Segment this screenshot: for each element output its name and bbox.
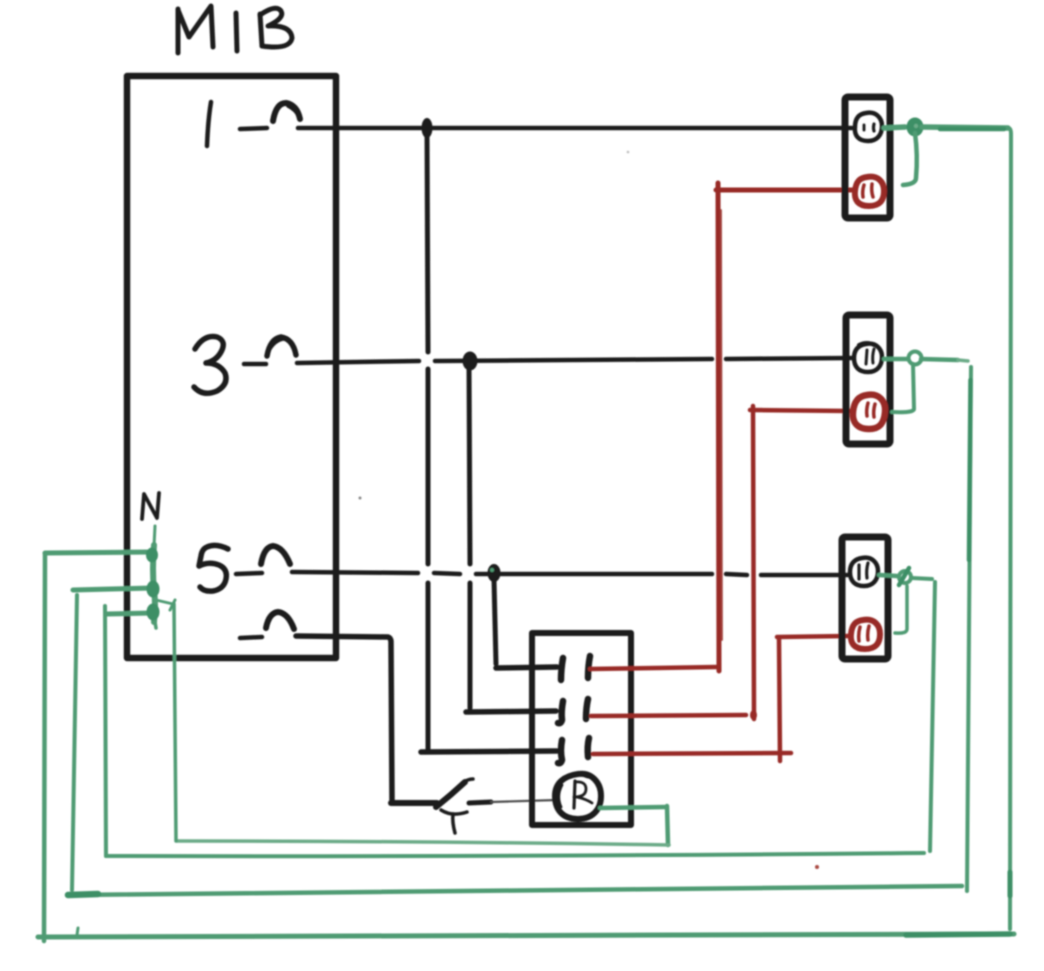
node junction on L3: [463, 352, 478, 371]
wire L1 from terminal 1 to outlet 1: [298, 126, 852, 131]
outlet 2 hot contact: [854, 343, 882, 372]
outlet 3 box: [842, 537, 888, 659]
neutral wire outlet2 bottom run: [68, 886, 962, 895]
terminal 3 of MIB (label, dash, breaker arc): [194, 337, 296, 394]
neutral wire relay coil bottom run: [177, 841, 669, 845]
neutral wire outlet2 run right: [921, 359, 968, 361]
outlet 1 hot contact: [855, 113, 882, 141]
label N: [142, 493, 159, 519]
terminal aux of MIB (dash, breaker arc): [240, 612, 294, 638]
stray ink speck gray: [359, 151, 630, 500]
neutral wire outlet3 left riser: [105, 606, 106, 856]
neutral wire outlet1 bottom run: [38, 928, 1014, 937]
node junction on L5: [488, 564, 501, 582]
neutral stub outlet3 into N: [107, 613, 152, 614]
outlet 2 switched contact: [853, 395, 885, 429]
label MIB: [178, 6, 292, 53]
red wire contact row3 to outlet 3: [593, 636, 848, 761]
neutral wire outlet1 right riser: [1008, 128, 1011, 929]
neutral wire outlet2 right riser: [967, 367, 971, 891]
wire L5 from terminal 5 to outlet 3 (gaps at crossings): [292, 572, 848, 575]
wire L-aux from aux terminal down to switch: [296, 636, 392, 800]
wire L5 drop to relay contact row 1: [494, 580, 557, 668]
neutral wire outlet3 right riser: [930, 582, 935, 851]
neutral wire relay coil left riser: [156, 600, 176, 841]
outlet 1 neutral pigtail: [884, 118, 924, 186]
terminal 5 of MIB (label, dash, breaker arc): [199, 545, 290, 591]
outlet 1 box: [845, 97, 890, 218]
neutral stub outlet2 into N: [73, 588, 152, 590]
N terminal cluster: [146, 526, 160, 628]
outlet 3 neutral pigtail: [879, 568, 911, 633]
outlet 3 switched contact: [851, 620, 880, 649]
node junction on L1: [422, 118, 433, 138]
wire L1 drop to relay contact row 3: [421, 133, 557, 752]
MIB enclosure box: [127, 76, 336, 658]
relay box K1: [532, 633, 631, 825]
outlet 2 neutral pigtail: [884, 352, 922, 413]
neutral wire outlet1 left riser: [44, 553, 45, 941]
neutral wire outlet2 left riser: [72, 595, 77, 890]
neutral wire outlet3 bottom run: [106, 853, 924, 856]
neutral wire relay coil run: [600, 806, 668, 845]
outlet 2 box: [846, 315, 890, 444]
relay contact row 1: [561, 656, 590, 680]
stray ink speck red: [815, 865, 819, 869]
red wire contact row2 to outlet 2: [591, 406, 851, 720]
neutral stub outlet1 into N: [45, 552, 154, 553]
wire switch to relay coil (thin): [491, 800, 557, 802]
wire L3 from terminal 3 to outlet 2 (gaps at crossings): [297, 358, 852, 363]
neutral wire outlet3 run right: [912, 578, 932, 579]
switch S1 (blade and handle): [391, 779, 491, 833]
neutral wire outlet1 run right: [922, 127, 1008, 129]
relay coil R: [555, 774, 601, 819]
red wire contact row1 to outlet 1: [590, 183, 852, 671]
outlet 3 hot contact: [850, 558, 878, 586]
relay contact row 2: [558, 699, 588, 723]
terminal 1 of MIB (label, dash, breaker arc): [207, 102, 300, 146]
wire L3 drop to relay contact row 2: [466, 366, 556, 712]
relay contact row 3: [558, 738, 589, 763]
outlet 1 switched contact: [855, 177, 884, 206]
